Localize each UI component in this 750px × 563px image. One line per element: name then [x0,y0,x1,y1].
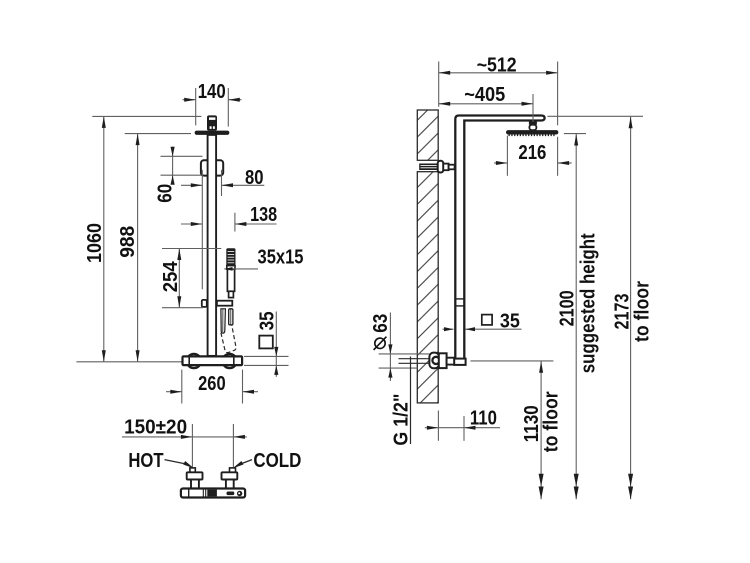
dim 2100 line with arrows [575,134,577,499]
mixer body (top view) [181,489,245,498]
svg-text:~512: ~512 [477,55,517,77]
dim 110 line and arrows [425,427,439,429]
HOT leader with arrow [165,460,186,464]
top hand-shower holder knob [207,115,217,130]
hose outlet left [221,309,226,333]
dim 80 extension lines [201,170,203,289]
svg-text:80: 80 [245,167,264,189]
pipe joint ticks [455,298,465,300]
svg-text:G 1/2": G 1/2" [390,394,412,446]
dim 35x15 leader [224,268,258,270]
ref line supply centre (1130) [471,360,554,362]
riser pipe and top arm outline [455,116,544,359]
ref line top of column (1060) [92,115,201,117]
diameter symbol [375,338,385,348]
hand shower handle [226,248,235,265]
dim 35 line and arrows (left fig) [275,312,277,377]
dim 80 line and arrows [181,184,202,186]
svg-text:COLD: COLD [253,450,301,472]
knob slot detail [209,117,215,120]
svg-text:2173: 2173 [612,294,634,330]
dim 216 line and arrows [494,162,507,164]
svg-text:1060: 1060 [84,223,106,263]
dim 216 extension line [506,136,508,176]
svg-text:2100: 2100 [557,290,579,326]
ref line arm top (2173) [547,115,643,117]
wall bracket plate [438,161,444,173]
COLD leader with arrow [241,460,252,464]
cold inlet (top view) [230,468,236,472]
dim 150±20 extension lines [191,424,193,469]
dim ~512 extension lines [438,62,440,107]
dim 138 line and arrows [181,223,202,225]
ball joint [529,121,537,125]
wall hatch upper section [417,110,438,160]
svg-text:60: 60 [155,184,177,203]
spray cone (dashed) [221,325,236,353]
svg-text:216: 216 [518,142,546,164]
handle knurling stripes [228,250,235,253]
dim 140 extension lines [195,88,197,125]
overhead shower disc (front) [195,131,230,135]
dim 260 line and arrows [166,391,182,393]
mixer body end dividers [188,356,190,366]
svg-text:~405: ~405 [464,84,505,106]
supply centrelines [399,358,430,360]
hot inlet (top view) [190,468,195,472]
svg-text:35x15: 35x15 [258,246,304,268]
pipe bottom cap [454,359,465,365]
svg-text:140: 140 [198,81,226,103]
dim 254 reference lines [162,248,221,250]
dim ~512 line and arrows [439,72,558,74]
dim 60 reference lines [161,155,203,157]
dim 254 line and arrows [178,249,180,308]
dim 1060 line with arrows [103,116,105,361]
dim 35 line and arrows (right fig) [443,328,454,330]
wall elbow block [439,353,447,368]
mixer top view details [188,489,190,496]
svg-text:suggested height: suggested height [578,233,600,373]
svg-text:260: 260 [198,373,226,395]
dim Ø63 reference lines [379,353,430,355]
dim Ø63 line and arrows [389,313,391,382]
slider bracket on column [201,160,223,175]
ref line head bottom (2100) [564,133,586,135]
G 1/2 leader line [410,357,412,445]
dim 150±20 line and arrows [122,436,247,438]
shower column pole [208,135,217,356]
dim 1130 line with arrows [540,361,542,499]
hose outlet right [229,309,233,325]
svg-text:35: 35 [257,311,279,330]
hand shower body [227,269,234,291]
svg-text:138: 138 [250,204,277,226]
overhead shower head (side) [506,130,558,134]
hand shower nozzle [229,291,234,297]
square 35 symbol (left fig) [259,336,273,349]
hand shower collar [227,266,235,270]
wall hatch lower section [417,172,438,403]
mixer valve left knob [187,354,201,368]
svg-text:150±20: 150±20 [124,417,187,439]
svg-text:110: 110 [470,407,497,429]
svg-text:HOT: HOT [128,450,163,472]
dim 110 extension lines [437,411,439,441]
ref line mixer centre (left) [76,361,181,363]
dim 260 extension lines [181,370,183,404]
hand shower holder arm [217,301,232,306]
square 35 symbol (right fig) [482,315,492,325]
svg-text:to floor: to floor [540,391,562,452]
wall anchor screw [419,164,438,171]
dim 60 line and arrows [172,147,174,184]
dim ~405 extension line [532,94,534,122]
dim 138 extension line [234,213,236,232]
wall elbow nut [429,353,439,369]
dim 2173 line with arrows [630,117,632,500]
dim 35 reference lines (left fig) [244,355,289,357]
svg-text:to floor: to floor [631,281,653,342]
dim 140 line and arrows [183,99,196,101]
svg-text:63: 63 [370,314,392,333]
ref line top of shower disc (988) [125,133,191,135]
svg-text:254: 254 [160,260,182,292]
wall elbow neck [447,358,455,365]
mixer body (front) [183,356,243,365]
svg-text:988: 988 [117,226,139,258]
bracket connector steps [443,164,448,171]
dim ~405 line and arrows [439,103,533,105]
dim 988 line with arrows [137,134,139,362]
mixer valve right knob [223,354,237,368]
slider knob [202,300,207,307]
